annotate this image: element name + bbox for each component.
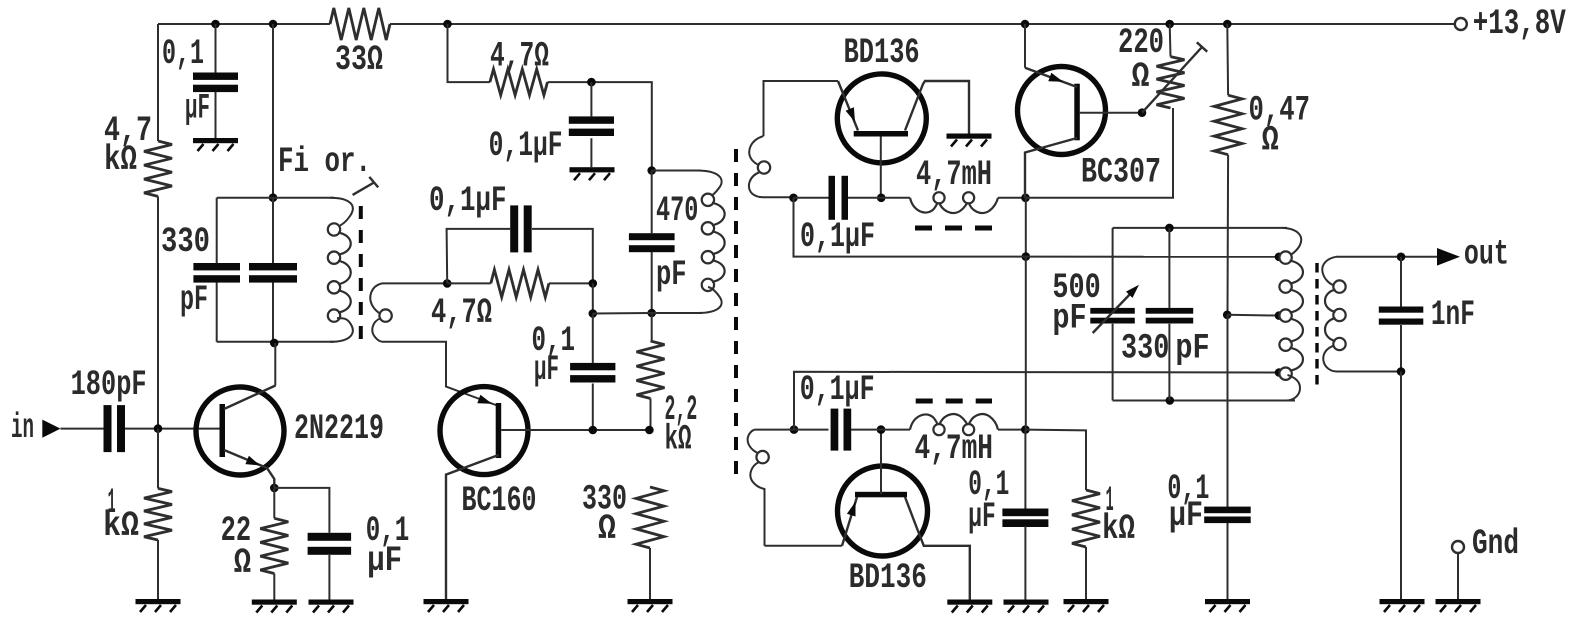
wire in to C3 [61, 428, 104, 430]
node Q1 emitter [270, 484, 279, 493]
ground Q4 collector [947, 600, 992, 613]
label BC160 [462, 481, 537, 521]
transistor Q3 base bar [854, 131, 908, 137]
node base-wiper [1138, 108, 1147, 117]
wire RC loop right [532, 229, 593, 284]
node rail-BC307 [1021, 20, 1030, 29]
svg-text:470: 470 [656, 191, 698, 231]
transistor Q1 collector lead [224, 343, 276, 409]
ground below R8 [628, 599, 673, 612]
transformer T3 primary arcs [1290, 261, 1303, 371]
capacitor C5 0.1uF [489, 116, 614, 166]
svg-text:Ω: Ω [1262, 121, 1279, 161]
transformer T1 secondary bottom bump [372, 318, 383, 342]
transformer T1 primary ring4 [328, 309, 340, 321]
wire rail to R1 [157, 24, 159, 141]
wire RC main left [447, 282, 491, 284]
transformer T3 secondary rings [1333, 280, 1345, 350]
capacitor 330pF A [161, 222, 240, 320]
transistor Q3 base lead [880, 137, 882, 199]
ground below Q2 [424, 599, 469, 612]
wire C13 branch lower [1112, 324, 1114, 401]
transistor Q3 emitter lead [838, 81, 858, 131]
wire rail to tank top [272, 24, 274, 198]
svg-text:µF: µF [534, 350, 559, 390]
svg-text:0,47: 0,47 [1249, 90, 1311, 130]
wire tap315 down [1227, 315, 1229, 508]
wire C15 upper [1400, 257, 1402, 307]
svg-text:out: out [1464, 235, 1509, 275]
transistor Q4 collector lead [905, 497, 970, 600]
capacitor C13 500pF variable [1052, 268, 1139, 339]
ground below C12 [1205, 599, 1250, 612]
wire tap wire y256 to T3 [1026, 256, 1281, 258]
wire R11 to ground [1085, 547, 1087, 599]
node tap315 [1223, 311, 1232, 320]
wire C9 to L1 [848, 197, 910, 199]
transformer T3 primary rings [1279, 251, 1291, 379]
wire rail to R10 [1226, 24, 1229, 95]
wire rail to Q5 emitter [1024, 24, 1026, 68]
node T3 tap top [1275, 252, 1284, 261]
resistor R10 0.47R [1214, 90, 1310, 160]
svg-text:BC307: BC307 [1081, 153, 1161, 193]
wire 470pF branch lower [651, 252, 653, 313]
trimmer arrow T1 [353, 177, 379, 195]
svg-text:Fi or.: Fi or. [278, 142, 371, 182]
out arrow [1437, 235, 1509, 275]
svg-text:Gnd: Gnd [1472, 524, 1519, 564]
transistor Q3 collector lead [905, 81, 969, 134]
transformer T2 secondary lower [748, 430, 769, 546]
wire T2su to C9 [794, 197, 829, 199]
wire net198 to pot bottom [1026, 108, 1174, 198]
svg-text:Ω: Ω [598, 509, 616, 549]
ground Q3 collector [947, 134, 992, 147]
wire T2su lower loop [794, 198, 1026, 257]
wire rail to R5 [448, 24, 490, 82]
transistor Q2 emitter arrow [477, 395, 492, 404]
node L1-BC307 [1021, 194, 1030, 203]
svg-text:33Ω: 33Ω [335, 40, 383, 80]
transformer T1 primary ring1 [328, 223, 340, 235]
label BD136 lower [849, 558, 927, 598]
wire T2 top [652, 170, 701, 172]
svg-text:0,1: 0,1 [162, 34, 204, 74]
node T2su-C9 [789, 194, 798, 203]
transformer T1 primary bottom curl [330, 318, 353, 342]
node rail-R4.7 [443, 20, 452, 29]
transformer T2 primary bottom curl [698, 287, 722, 313]
wire 330pF-B branch lower [272, 282, 274, 343]
inductor L2 4.7mH [910, 401, 998, 469]
transistor Q4 emitter lead [842, 497, 857, 546]
wire net429 to R11 [1025, 430, 1086, 490]
wire C3 to base [125, 428, 220, 430]
node base-C8 [589, 426, 598, 435]
transistor Q1 emitter lead [224, 450, 274, 484]
wire T2 sec upper to Q3 [764, 81, 839, 136]
transformer T3 core (dashed) [1315, 263, 1318, 386]
wire tank bottom rail [217, 341, 334, 343]
node base-R2 [154, 424, 163, 433]
wire emitter to C4 [274, 488, 329, 533]
transformer T1 secondary top bump [370, 283, 382, 314]
wire C11 branch [1024, 430, 1026, 510]
node RC left [443, 279, 452, 288]
resistor R8 330R [582, 480, 664, 550]
svg-text:0,1µF: 0,1µF [429, 181, 507, 221]
transformer T3 secondary top curl [1322, 257, 1336, 286]
ground below C11 [1004, 600, 1049, 613]
node rail-C2branch [269, 20, 278, 29]
node T2 top [647, 166, 656, 175]
transistor Q2 collector lead [446, 455, 499, 599]
node tank bottom [270, 339, 279, 348]
svg-text:Ω: Ω [1132, 57, 1150, 97]
resistor 33R in supply rail [330, 8, 390, 80]
wire C15 lower [1400, 325, 1402, 372]
wire C8 branch [592, 314, 594, 363]
inductor L1 4.7mH [910, 155, 998, 228]
wire rail to pot [1169, 24, 1172, 57]
wire tap429 up loop [794, 372, 1279, 430]
capacitor C1 0.1uF [162, 34, 238, 129]
transformer T2 secondary upper [749, 136, 793, 197]
svg-text:µF: µF [185, 89, 210, 129]
wire 330pF-B branch upper [272, 198, 274, 263]
wire T2 bottom [652, 312, 702, 314]
resistor R9 220R pot [1118, 23, 1185, 108]
wire Gnd terminal [1457, 553, 1459, 599]
ground below R3 [252, 600, 297, 613]
svg-text:BC160: BC160 [462, 481, 537, 521]
terminal Gnd [1452, 524, 1519, 564]
svg-text:0,1µF: 0,1µF [800, 217, 875, 257]
wire tap315 to T3 [1227, 314, 1281, 317]
svg-text:pF: pF [180, 280, 208, 320]
resistor R5 4.7R [490, 37, 549, 95]
svg-text:1nF: 1nF [1431, 295, 1475, 335]
node RC right [589, 279, 598, 288]
node R5-C5 [587, 78, 596, 87]
label 2N2219 [294, 409, 384, 449]
label Fi or. [278, 142, 371, 182]
wire R8 to ground [649, 548, 651, 599]
wire R7 to base node [650, 399, 652, 430]
resistor R2 1k [103, 483, 172, 546]
transformer T1 primary top curl [330, 198, 353, 227]
svg-text:pF: pF [1175, 329, 1209, 369]
wire C8 to base line [592, 384, 594, 431]
transistor Q5 collector lead [1025, 138, 1077, 198]
node rail-R0.47 [1223, 20, 1232, 29]
svg-text:4,7Ω: 4,7Ω [490, 37, 549, 77]
svg-text:kΩ: kΩ [665, 420, 692, 460]
ground below R11 [1064, 599, 1109, 612]
wire T2sl to C10 [755, 429, 829, 431]
wire tank2 bottom [1113, 400, 1295, 402]
node out-C15 [1397, 252, 1406, 261]
wire T3 sec to ground [1400, 372, 1402, 600]
transformer T2 primary rings [702, 194, 714, 291]
resistor R7 2.2k [637, 341, 698, 460]
capacitor C11 0.1uF [968, 465, 1048, 537]
node tank2 bottom [1166, 396, 1175, 405]
node C8 top [589, 309, 598, 318]
wire +13.8V supply rail (left section) [158, 23, 330, 25]
wire tank top rail [217, 197, 334, 199]
wire R3 to ground [273, 574, 275, 600]
transformer T1 core (dashed) [359, 206, 363, 343]
wire C14 branch lower [1168, 324, 1170, 401]
input arrow [42, 420, 60, 438]
svg-text:Ω: Ω [234, 543, 251, 583]
label in [11, 408, 34, 448]
wire +13.8V supply rail (right section) [390, 23, 1454, 25]
transistor Q4 base bar [855, 492, 907, 498]
ground below C5 [570, 167, 615, 180]
svg-text:0,1µF: 0,1µF [800, 370, 875, 410]
transformer T2 core (dashed) [734, 149, 738, 485]
node T2 bottom [647, 309, 656, 318]
wire C5 to ground [590, 138, 592, 167]
transformer T2 primary top curl [697, 171, 722, 199]
label BC307 [1081, 153, 1161, 193]
capacitor C8 0.1uF [532, 321, 616, 390]
wire T2 sec lower to Q4 [765, 545, 843, 547]
wire tank2 top [1113, 227, 1287, 229]
svg-text:330: 330 [1121, 329, 1169, 369]
svg-text:BD136: BD136 [849, 558, 927, 598]
svg-text:BD136: BD136 [844, 33, 920, 73]
transistor Q3 BD136 body [837, 74, 926, 163]
ground below T3 [1380, 599, 1425, 612]
transistor Q2 BC160 body [440, 387, 528, 475]
node L2 right [1021, 425, 1030, 434]
node tank2 top [1165, 224, 1174, 233]
node tank top [269, 193, 278, 202]
wire RC main right [549, 282, 593, 284]
ground below C4 [309, 600, 354, 613]
svg-text:2N2219: 2N2219 [294, 409, 384, 449]
wire C12 to ground [1227, 523, 1229, 599]
svg-text:µF: µF [1169, 496, 1203, 536]
resistor R6 4.7R [431, 270, 549, 333]
ground below C1 [193, 138, 238, 151]
transistor Q4 emitter arrow [847, 502, 856, 517]
wire down to coil node [592, 283, 594, 313]
wire C1 to ground [215, 92, 217, 138]
svg-text:kΩ: kΩ [1102, 509, 1135, 549]
wire T3 sec top to out [1336, 256, 1437, 258]
transistor Q5 BC307 body [1018, 67, 1106, 155]
wire L1 to node [998, 197, 1026, 199]
node rail-pot220 [1165, 20, 1174, 29]
svg-text:pF: pF [656, 255, 687, 295]
svg-text:µF: µF [367, 541, 402, 581]
capacitor C9 0.1uF [800, 176, 875, 257]
node T3 tap bottom [1275, 368, 1284, 377]
wire T3 sec bottom [1337, 371, 1401, 373]
svg-text:4,7mH: 4,7mH [916, 155, 992, 195]
svg-text:4,7mH: 4,7mH [915, 429, 994, 469]
resistor R1 4.7k [104, 111, 172, 196]
terminal +13.8V [1455, 4, 1566, 44]
wire emitter to R3 [273, 484, 275, 518]
svg-text:kΩ: kΩ [103, 506, 139, 546]
node tap256 [1022, 252, 1031, 261]
wire C13 branch upper [1112, 228, 1114, 308]
transformer T1 primary arcs [338, 233, 351, 313]
wire R1 to base node [157, 196, 159, 429]
capacitor C12 0.1uF [1167, 469, 1250, 536]
ground below R2 [136, 599, 181, 612]
svg-text:kΩ: kΩ [104, 140, 137, 180]
wire L2 to node [998, 429, 1025, 431]
transistor Q4 base lead [880, 430, 882, 494]
transistor Q5 emitter lead [1025, 68, 1077, 87]
transistor Q1 base bar [220, 404, 226, 457]
wire RC loop left [447, 229, 511, 284]
resistor R11 1k [1072, 481, 1135, 549]
svg-text:180pF: 180pF [71, 365, 147, 405]
wire C10 to L2 [851, 429, 910, 431]
svg-text:in: in [11, 408, 34, 448]
capacitor C6 470pF [629, 191, 699, 295]
capacitor C10 0.1uF [800, 370, 875, 451]
wire C5 branch [590, 82, 592, 116]
capacitor C15 1nF [1379, 295, 1475, 335]
wire 330pF-A branch upper [216, 198, 218, 263]
node Q4 base [877, 425, 886, 434]
capacitor 330pF B [249, 263, 297, 283]
transistor Q2 base bar [496, 403, 502, 458]
wire rail to C1 [215, 24, 217, 74]
wire C4 to ground [328, 555, 330, 600]
capacitor C14 330pF [1121, 308, 1210, 369]
wire 330pF-A branch lower [216, 282, 218, 341]
ground below Gnd terminal [1436, 599, 1481, 612]
transistor Q1 2N2219 body [196, 387, 284, 475]
node base-R7 [645, 426, 654, 435]
svg-text:4,7Ω: 4,7Ω [431, 293, 492, 333]
capacitor C7 0.1uF [429, 181, 532, 252]
transformer T3 secondary arcs [1325, 290, 1336, 341]
wire base node to R2 [157, 429, 159, 489]
wire Q2 base line [501, 429, 649, 431]
wire tap198 down [1025, 198, 1027, 257]
transformer T1 secondary ring [379, 309, 391, 321]
wire 470pF branch upper [651, 171, 653, 234]
transistor Q5 base bar [1074, 84, 1080, 141]
transistor Q5 base lead [1080, 112, 1142, 114]
transistor Q3 emitter arrow [846, 107, 855, 122]
svg-text:330: 330 [161, 222, 210, 262]
transformer T3 primary bottom curl [1286, 375, 1300, 401]
transistor Q1 emitter arrow [245, 456, 260, 466]
node Q3 base [877, 194, 886, 203]
wire T1 sec bottom to Q2 emitter [383, 342, 499, 406]
node T3 tap middle [1275, 311, 1284, 320]
svg-text:+13,8V: +13,8V [1473, 4, 1566, 44]
transformer T1 primary ring2 [328, 252, 340, 264]
transformer T3 secondary bottom curl [1323, 346, 1337, 372]
node T3 sec bottom [1397, 367, 1406, 376]
resistor R3 22R [221, 511, 289, 583]
transformer T3 primary top curl [1282, 228, 1301, 257]
transistor Q4 BD136 body [838, 466, 928, 556]
wire BC307 vertical link [1025, 257, 1027, 430]
node T2sl-C10 [790, 425, 799, 434]
wire C11 to ground [1024, 526, 1026, 600]
wire to R7 2.2k [651, 313, 653, 341]
wire R5 to C5 node [548, 82, 652, 170]
wire C14 branch upper [1168, 228, 1170, 308]
wire R10 down to tap [1227, 155, 1230, 315]
transformer T1 primary ring3 [328, 281, 340, 293]
capacitor C3 180pF [71, 365, 147, 452]
svg-text:0,1µF: 0,1µF [489, 126, 563, 166]
transformer T2 primary arcs [712, 203, 725, 282]
wire coil node link [593, 312, 652, 315]
svg-text:µF: µF [968, 497, 996, 537]
label BD136 upper [844, 33, 920, 73]
capacitor C4 0.1uF [308, 511, 410, 581]
pot wiper arrow [1142, 42, 1207, 112]
svg-text:pF: pF [1052, 299, 1086, 339]
wire T1 sec top to RC [382, 282, 447, 284]
transistor Q5 emitter arrow [1048, 73, 1063, 82]
node rail-C1 [211, 20, 220, 29]
wire R2 to ground [157, 540, 159, 599]
